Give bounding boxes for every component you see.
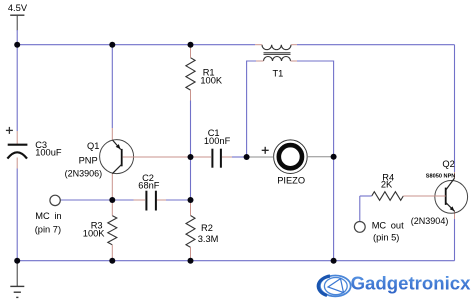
wire C3 bottom lead <box>16 158 18 169</box>
wire T1 secondary left drop <box>247 61 256 157</box>
wire base node to C2 node <box>190 157 192 200</box>
wire C1 left lead <box>191 156 212 158</box>
wire C1 right lead <box>222 156 232 158</box>
node R1 top rail junction <box>188 42 194 48</box>
node C2 / R2 junction <box>188 197 194 203</box>
wire Q2 collector lead <box>454 172 456 178</box>
transistor Q2 <box>435 178 468 213</box>
capacitor C3 <box>6 127 28 159</box>
wire Q1 base lead <box>123 156 191 158</box>
wire T1 primary left lead <box>255 44 262 46</box>
svg-text:MC in: MC in <box>35 211 61 221</box>
svg-text:PIEZO: PIEZO <box>277 175 305 185</box>
terminal MC out <box>354 222 365 233</box>
wire left vertical (supply to C3) <box>16 30 18 131</box>
node MC in / R3 junction <box>109 197 115 203</box>
wire T1 secondary right lead <box>291 60 298 62</box>
wire top rail <box>17 44 255 46</box>
svg-text:(pin 7): (pin 7) <box>35 224 61 234</box>
label R2 value <box>198 223 219 244</box>
wire R3 top lead <box>111 200 113 216</box>
svg-text:Q2: Q2 <box>442 159 454 169</box>
node piezo branch bottom junction <box>331 258 337 264</box>
terminal MC in <box>50 195 60 205</box>
svg-text:100uF: 100uF <box>35 148 62 158</box>
node R2 bottom junction <box>188 258 194 264</box>
resistor R2 <box>186 216 195 248</box>
wire Q2 emitter lead <box>454 211 456 219</box>
label C3 value <box>35 140 62 157</box>
svg-text:Q1: Q1 <box>87 141 99 151</box>
wire C1 to piezo node <box>232 156 247 158</box>
svg-text:(2N3906): (2N3906) <box>65 168 103 178</box>
wire R2 bottom lead <box>190 247 192 260</box>
wire Q1 emitter vertical <box>111 45 113 128</box>
node Q1 emitter rail junction <box>109 42 115 48</box>
wire bottom rail <box>17 260 454 262</box>
ground <box>10 263 24 297</box>
svg-text:100K: 100K <box>83 229 106 239</box>
label MC out (pin 5) <box>372 221 404 243</box>
wire MC in stub <box>60 199 112 201</box>
resistor R4 <box>372 192 404 201</box>
label Q1 <box>65 141 103 178</box>
label R1 value <box>200 68 223 86</box>
resistor R1 <box>186 58 195 90</box>
label C1 value <box>204 128 231 146</box>
svg-text:PNP: PNP <box>79 156 98 166</box>
wire Q1 collector lead <box>111 174 113 200</box>
wire top rail right of T1 <box>297 44 455 46</box>
label Q2 <box>411 159 456 226</box>
svg-text:MC out: MC out <box>372 221 404 231</box>
wire R2 top lead <box>190 200 192 216</box>
wire piezo node to bottom rail <box>333 157 335 261</box>
wire Q2 collector vertical <box>454 45 456 172</box>
node piezo right junction <box>331 154 337 160</box>
wire Q2 emitter to bottom rail <box>454 219 456 261</box>
wire piezo left lead <box>247 156 274 158</box>
power +4.5V terminal <box>10 15 24 30</box>
wire R1 bottom lead <box>190 90 192 100</box>
wire left vertical (C3 to bottom rail) <box>16 169 18 261</box>
wire R1 to base node <box>190 101 192 158</box>
node supply/top-left junction <box>14 42 20 48</box>
node R3 bottom junction <box>109 258 115 264</box>
wire MC out drop <box>359 196 361 221</box>
svg-text:Gadgetronicx: Gadgetronicx <box>351 273 472 294</box>
wire R1 top lead <box>190 45 192 58</box>
wire C2 to R2 node <box>166 199 191 201</box>
label R3 value <box>83 221 106 239</box>
Gadgetronicx logo <box>318 273 471 297</box>
svg-text:4.5V: 4.5V <box>8 3 28 13</box>
capacitor C2 <box>146 191 156 211</box>
svg-text:T1: T1 <box>273 68 284 78</box>
node C1 / T1 secondary junction <box>244 154 250 160</box>
wire node row (MC in node to C2) <box>112 199 133 201</box>
svg-text:(2N3904): (2N3904) <box>411 216 449 226</box>
svg-text:3.3M: 3.3M <box>198 234 219 244</box>
wire C3 top lead <box>16 131 18 144</box>
svg-text:2K: 2K <box>381 180 393 190</box>
wire R4 left lead <box>360 195 372 197</box>
wire Q1 emitter lead <box>111 128 113 140</box>
wire T1 primary right lead <box>291 44 297 46</box>
wire piezo right lead <box>307 156 333 158</box>
node Q1 base / R1 / C1 junction <box>188 154 194 160</box>
svg-text:R2: R2 <box>201 223 213 233</box>
svg-text:S8050 NPN: S8050 NPN <box>426 174 456 180</box>
wire C2 right lead <box>157 199 166 201</box>
svg-text:100K: 100K <box>200 76 223 86</box>
wire C2 left lead <box>134 199 146 201</box>
capacitor C1 <box>212 149 221 168</box>
svg-text:100nF: 100nF <box>204 136 231 146</box>
transistor Q1 <box>100 140 134 174</box>
wire R3 bottom lead <box>111 245 113 261</box>
transformer T1 <box>262 45 291 61</box>
label R4 value <box>381 173 394 190</box>
wire T1 secondary left lead <box>256 60 264 62</box>
wire R4 right lead (to Q2 base) <box>403 195 445 197</box>
wire T1 secondary right drop <box>297 61 334 157</box>
label MC in (pin 7) <box>35 211 62 234</box>
node ground rail junction <box>14 258 20 264</box>
resistor R3 <box>108 216 117 245</box>
svg-text:(pin 5): (pin 5) <box>373 233 399 243</box>
piezo transducer <box>262 140 308 174</box>
svg-text:68nF: 68nF <box>138 181 160 191</box>
label C2 value <box>138 173 160 191</box>
